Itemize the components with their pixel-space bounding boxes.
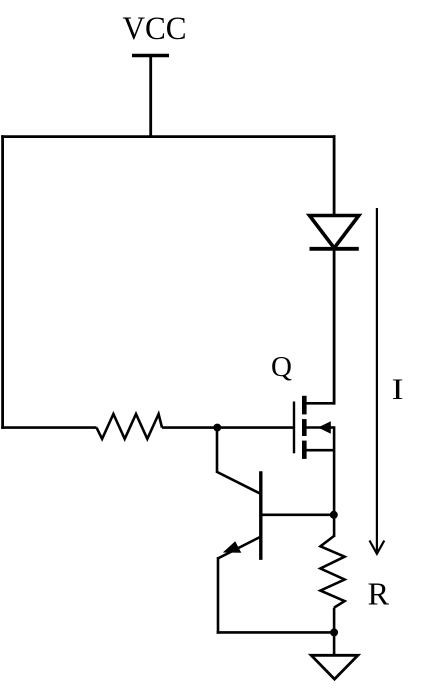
wire bottom rail: [217, 631, 334, 634]
node junction BJT base sense node: [330, 511, 338, 519]
source lead: [305, 449, 334, 452]
wire resistor R to ground node: [333, 608, 336, 633]
wire gate node to BJT collector: [216, 428, 219, 473]
wire left rail: [1, 135, 4, 429]
wire top rail: [1, 135, 335, 138]
wire VCC stub: [149, 56, 152, 139]
wire top rail to diode anode: [333, 135, 336, 216]
svg-text:R: R: [368, 576, 390, 612]
resistor gate bias: [97, 414, 163, 439]
emitter arrow: [223, 541, 242, 553]
wire MOSFET bulk/source down to resistor R: [333, 426, 336, 537]
channel segment bottom: [302, 441, 307, 459]
VCC supply bar: [132, 54, 169, 57]
wire gate rail right segment: [162, 426, 294, 429]
base bar: [259, 471, 262, 560]
bulk lead: [305, 426, 334, 429]
drain lead: [305, 402, 334, 405]
wire diode cathode to MOSFET drain: [333, 249, 336, 405]
svg-text:VCC: VCC: [123, 11, 187, 47]
base lead: [261, 513, 334, 516]
wire gate rail left segment: [1, 426, 96, 429]
node junction gate node: [213, 424, 221, 432]
ground: [311, 655, 358, 679]
bulk arrow: [318, 421, 331, 434]
collector lead: [216, 472, 261, 494]
node junction ground node: [330, 628, 338, 636]
transistor NPN BJT: [216, 471, 333, 560]
current arrow I: [370, 208, 385, 554]
svg-text:I: I: [392, 374, 404, 406]
channel segment middle: [302, 419, 307, 436]
emitter lead: [218, 537, 261, 559]
diode: [310, 216, 359, 249]
wire to ground symbol: [333, 632, 336, 656]
wire BJT emitter to bottom rail: [217, 557, 220, 634]
transistor Q NMOS: [294, 396, 334, 459]
gate line: [293, 402, 295, 454]
resistor R: [320, 536, 344, 608]
svg-text:Q: Q: [271, 351, 292, 383]
channel segment top: [302, 396, 307, 415]
